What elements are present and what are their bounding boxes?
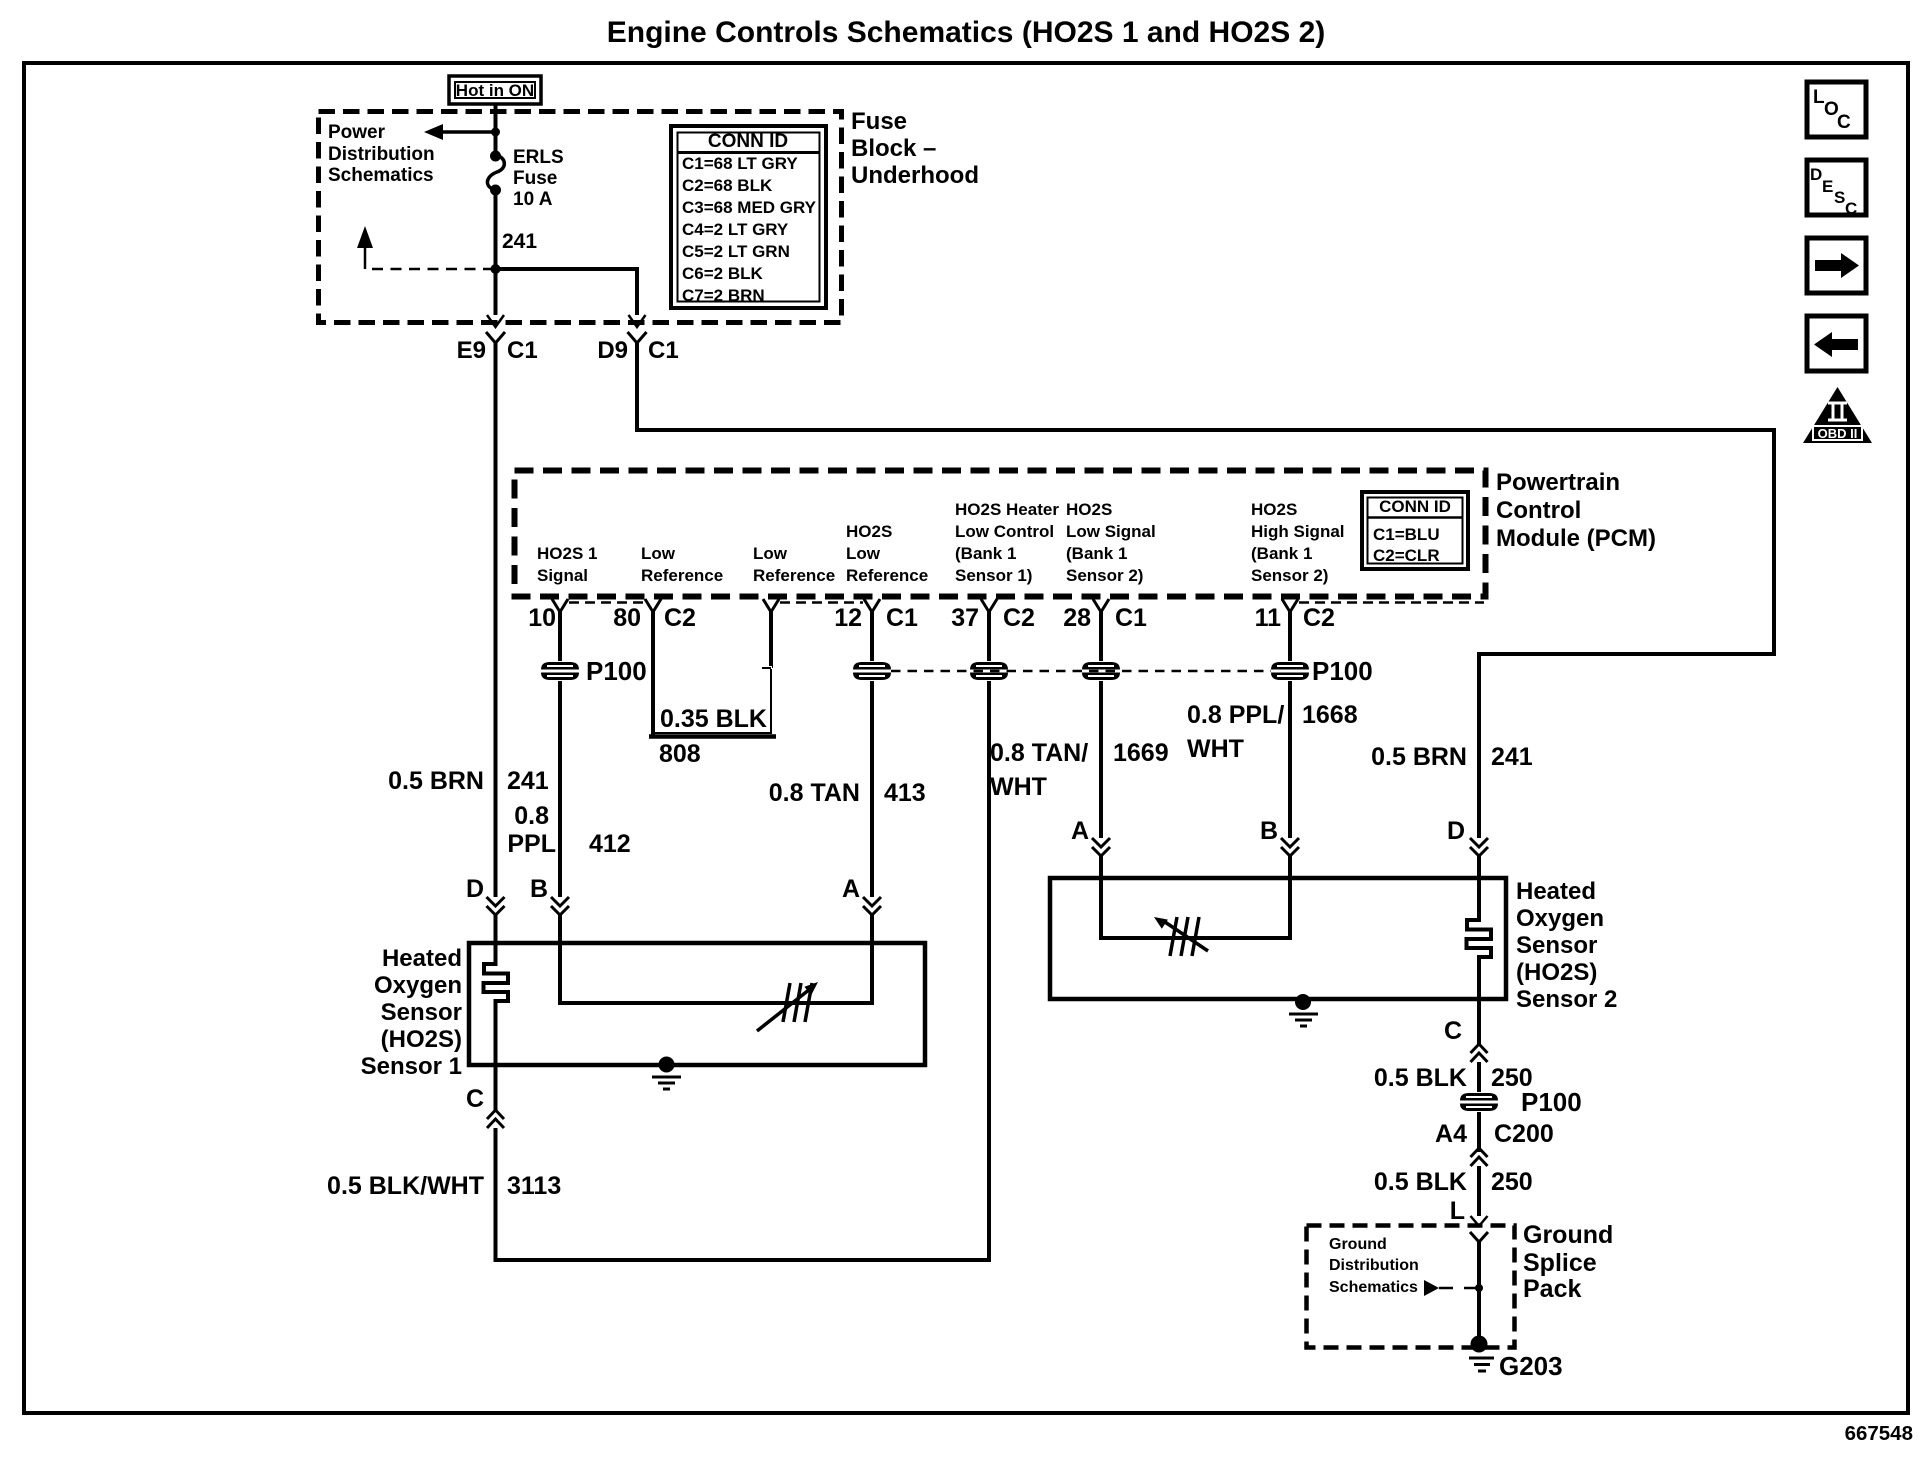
ground symbol G203 [1469, 1358, 1494, 1371]
svg-text:P100: P100 [1521, 1087, 1582, 1117]
svg-text:WHT: WHT [990, 773, 1047, 801]
highlight box for wire label 0.35 BLK [652, 666, 772, 733]
svg-text:(Bank 1: (Bank 1 [1066, 544, 1127, 563]
svg-text:C3=68 MED GRY: C3=68 MED GRY [682, 198, 817, 217]
next-page arrow button [1807, 238, 1866, 293]
arrowheads into HO2S2 pin A [1092, 838, 1110, 856]
svg-text:(Bank 1: (Bank 1 [1251, 544, 1312, 563]
wire below HO2S1 pin C [494, 1065, 498, 1110]
svg-text:0.35 BLK: 0.35 BLK [660, 705, 767, 733]
svg-text:(Bank 1: (Bank 1 [955, 544, 1016, 563]
svg-text:C2=68 BLK: C2=68 BLK [682, 176, 773, 195]
wire below HO2S2 pin C [1477, 999, 1481, 1044]
svg-text:Hot in ON: Hot in ON [456, 81, 534, 100]
arrowheads out of HO2S2 pin C [1471, 1044, 1488, 1062]
svg-text:Sensor 1: Sensor 1 [361, 1053, 462, 1080]
dashed reference pointer with up arrow [364, 248, 367, 269]
DESC button [1807, 160, 1866, 218]
ground dot G203 [1471, 1336, 1488, 1353]
svg-text:HO2S 1: HO2S 1 [537, 544, 597, 563]
svg-text:E9: E9 [457, 337, 486, 364]
connector tie dashes pin10-pin80 [569, 601, 644, 604]
svg-text:B: B [530, 875, 548, 903]
wire 241 into HO2S1 pin D [494, 343, 498, 943]
svg-text:C1: C1 [648, 337, 679, 364]
heater element inside HO2S2 [1467, 878, 1492, 999]
svg-text:0.8 TAN/: 0.8 TAN/ [990, 739, 1088, 767]
svg-text:C6=2 BLK: C6=2 BLK [682, 264, 763, 283]
arrowheads on wire 250 at C200 [1471, 1148, 1488, 1166]
splice P100 on wire 3113 [970, 662, 1008, 680]
connector tie dashes lowref-pin12 [780, 601, 863, 604]
svg-text:C2=CLR: C2=CLR [1373, 546, 1440, 565]
HO2S sensor 1 box [469, 943, 925, 1065]
svg-text:CONN ID: CONN ID [1379, 497, 1451, 516]
variable element arrow HO2S2 [1162, 920, 1208, 951]
PCM dashed box [515, 471, 1486, 597]
svg-text:10 A: 10 A [513, 189, 553, 210]
OBD II triangle icon [1803, 387, 1872, 443]
variable element arrow HO2S1 [757, 989, 810, 1031]
svg-text:Control: Control [1496, 497, 1581, 524]
svg-text:80: 80 [613, 604, 641, 632]
svg-text:0.8 PPL/: 0.8 PPL/ [1187, 701, 1284, 729]
svg-text:C1: C1 [1115, 604, 1147, 632]
svg-text:Ground: Ground [1329, 1236, 1387, 1253]
svg-text:0.5 BRN: 0.5 BRN [388, 767, 484, 795]
svg-text:Module (PCM): Module (PCM) [1496, 525, 1656, 552]
svg-text:WHT: WHT [1187, 735, 1244, 763]
svg-text:C5=2 LT GRN: C5=2 LT GRN [682, 242, 790, 261]
PCM connector Y pin 37 [981, 599, 997, 612]
wire from fuse down to junction node 241 [494, 194, 498, 269]
splice P100 on wire 412 [541, 662, 579, 680]
splice P100 on wire 413 [853, 662, 891, 680]
connector Y at E9 [486, 332, 505, 343]
svg-text:241: 241 [507, 767, 549, 795]
svg-text:28: 28 [1063, 604, 1091, 632]
PCM connector Y pin 12 [864, 599, 880, 612]
svg-text:Signal: Signal [537, 566, 588, 585]
connector tie dashes between P100 splices [891, 670, 1271, 673]
svg-text:Power: Power [328, 122, 386, 143]
PCM connector Y pin 28 [1093, 599, 1109, 612]
ground dot inside HO2S2 [1295, 994, 1311, 1010]
svg-text:Heated: Heated [1516, 878, 1596, 905]
svg-text:Sensor: Sensor [1516, 932, 1597, 959]
svg-text:ERLS: ERLS [513, 147, 564, 168]
arrowheads into HO2S1 pin D [487, 897, 505, 915]
svg-text:C7=2 BRN: C7=2 BRN [682, 286, 765, 305]
wire 808: PCM pin 80 down [651, 610, 655, 736]
svg-text:1669: 1669 [1113, 739, 1169, 767]
fuse ERLS 10A symbol [490, 151, 501, 162]
svg-text:241: 241 [502, 230, 537, 253]
svg-text:Schematics: Schematics [1329, 1279, 1418, 1296]
wire stubs into HO2S2 pins [1101, 856, 1479, 878]
internal sense wire HO2S1 [560, 943, 872, 1003]
splice P100 on wire 250 [1460, 1093, 1498, 1111]
PCM connector Y low reference [763, 599, 779, 612]
connector Y at ground splice pack [1470, 1232, 1488, 1242]
svg-text:Oxygen: Oxygen [1516, 905, 1604, 932]
splice P100 on wire 1668 [1271, 662, 1309, 680]
wire link under 0.35 BLK box [649, 734, 776, 739]
svg-text:808: 808 [659, 740, 701, 768]
wire from Hot in ON down to junction [494, 104, 498, 152]
svg-text:High Signal: High Signal [1251, 522, 1345, 541]
Ground Splice Pack dashed box [1307, 1226, 1515, 1348]
svg-text:Powertrain: Powertrain [1496, 469, 1620, 496]
svg-text:HO2S: HO2S [1251, 500, 1297, 519]
svg-text:Pack: Pack [1523, 1275, 1581, 1303]
svg-text:G203: G203 [1499, 1351, 1563, 1381]
svg-text:OBD II: OBD II [1818, 426, 1858, 441]
arrowhead pointing left [424, 124, 443, 140]
svg-text:0.5 BLK: 0.5 BLK [1374, 1064, 1467, 1092]
svg-text:D: D [1447, 817, 1465, 845]
LOC button [1807, 82, 1866, 137]
arrowhead into ground splice pack [1471, 1216, 1488, 1226]
svg-text:C2: C2 [664, 604, 696, 632]
svg-text:D: D [1810, 165, 1822, 184]
svg-text:Sensor 2): Sensor 2) [1251, 566, 1328, 585]
svg-text:413: 413 [884, 779, 926, 807]
wire: PCM low reference down [769, 610, 773, 668]
svg-text:Sensor: Sensor [381, 999, 462, 1026]
svg-text:0.8: 0.8 [514, 802, 549, 830]
svg-text:0.5 BLK/WHT: 0.5 BLK/WHT [327, 1172, 484, 1200]
svg-text:PPL: PPL [507, 830, 556, 858]
splice P100 on wire 1669 [1082, 662, 1120, 680]
svg-text:37: 37 [951, 604, 979, 632]
svg-text:Underhood: Underhood [851, 162, 979, 189]
svg-text:1668: 1668 [1302, 701, 1358, 729]
svg-text:Distribution: Distribution [1329, 1257, 1419, 1274]
wire 808 overlay on highlight box [651, 666, 655, 736]
svg-text:(HO2S): (HO2S) [1516, 959, 1597, 986]
wire from junction across and down to D9 exit [494, 269, 638, 315]
svg-text:Distribution: Distribution [328, 144, 435, 165]
svg-text:Low: Low [641, 544, 676, 563]
wire 241 from D9 across top to HO2S sensor 2 pin D [637, 343, 1774, 838]
variable sense element ticks HO2S1 [783, 983, 812, 1022]
svg-text:P100: P100 [586, 656, 647, 686]
variable sense element ticks HO2S2 [1170, 917, 1199, 956]
connector Y at D9 [628, 332, 647, 343]
Hot in ON flag box [449, 76, 541, 104]
svg-text:C1: C1 [507, 337, 538, 364]
wire 1668: PCM pin 11 to HO2S2 pin B [1288, 610, 1292, 838]
svg-text:HO2S Heater: HO2S Heater [955, 500, 1059, 519]
svg-text:Reference: Reference [846, 566, 928, 585]
svg-text:Block –: Block – [851, 135, 936, 162]
svg-text:C200: C200 [1494, 1120, 1554, 1148]
svg-text:412: 412 [589, 830, 631, 858]
CONN ID table (PCM) [1362, 492, 1468, 569]
svg-text:D9: D9 [597, 337, 628, 364]
wire 412: PCM pin 10 to HO2S1 pin B [558, 610, 562, 897]
PCM connector Y pin 11 [1282, 599, 1298, 612]
heater element inside HO2S1 [484, 943, 509, 1065]
CONN ID table (fuse block) [671, 126, 826, 308]
wire inside ground splice pack [1477, 1242, 1481, 1342]
svg-text:Reference: Reference [753, 566, 835, 585]
svg-text:B: B [1260, 817, 1278, 845]
svg-text:667548: 667548 [1845, 1422, 1913, 1445]
wire 413: PCM pin 12 to HO2S1 pin A [870, 610, 874, 897]
svg-text:Fuse: Fuse [851, 108, 907, 135]
svg-text:C1=BLU: C1=BLU [1373, 525, 1440, 544]
svg-text:A: A [1071, 817, 1089, 845]
svg-text:Low Signal: Low Signal [1066, 522, 1156, 541]
svg-text:11: 11 [1255, 604, 1282, 632]
svg-text:Reference: Reference [641, 566, 723, 585]
svg-text:HO2S: HO2S [1066, 500, 1112, 519]
svg-text:A: A [842, 875, 860, 903]
svg-text:0.5 BLK: 0.5 BLK [1374, 1168, 1467, 1196]
svg-text:Oxygen: Oxygen [374, 972, 462, 999]
arrowhead at D9 fuse box exit [629, 315, 646, 327]
arrowheads into HO2S1 pin A [863, 897, 881, 915]
Fuse Block - Underhood dashed box [319, 112, 842, 323]
svg-text:12: 12 [834, 604, 862, 632]
svg-text:A4: A4 [1435, 1120, 1467, 1148]
svg-text:Sensor 1): Sensor 1) [955, 566, 1032, 585]
previous-page arrow button [1807, 316, 1866, 371]
svg-text:3113: 3113 [507, 1172, 561, 1200]
connector tie dashes pin11-PCM edge [1299, 601, 1484, 604]
svg-text:250: 250 [1491, 1168, 1533, 1196]
svg-text:0.8 TAN: 0.8 TAN [769, 779, 860, 807]
svg-text:C2: C2 [1003, 604, 1035, 632]
svg-text:C: C [1845, 199, 1857, 218]
svg-text:L: L [1450, 1197, 1465, 1225]
svg-text:Sensor 2): Sensor 2) [1066, 566, 1143, 585]
svg-text:C1: C1 [886, 604, 918, 632]
arrowhead at E9 fuse box exit [487, 315, 504, 327]
wire 3113: PCM pin 37 down, across, up to HO2S1 pin C [496, 610, 990, 1260]
junction dot at fuse top stub [491, 128, 500, 137]
svg-text:0.5 BRN: 0.5 BRN [1371, 743, 1467, 771]
HO2S sensor 2 box [1050, 878, 1506, 999]
arrowheads out of HO2S1 pin C [487, 1110, 504, 1128]
svg-text:C: C [1837, 112, 1851, 133]
reference pointer arrow to wire [1424, 1280, 1439, 1296]
svg-text:D: D [466, 875, 484, 903]
PCM connector Y pin 80 [645, 599, 661, 612]
svg-text:P100: P100 [1312, 656, 1373, 686]
svg-text:Low Control: Low Control [955, 522, 1054, 541]
svg-text:10: 10 [528, 604, 556, 632]
svg-text:C2: C2 [1303, 604, 1335, 632]
ground symbol HO2S1 [652, 1077, 681, 1089]
ground symbol HO2S2 [1289, 1014, 1318, 1026]
svg-text:HO2S: HO2S [846, 522, 892, 541]
svg-text:C: C [1444, 1017, 1462, 1045]
arrowheads into HO2S2 pin D [1470, 838, 1488, 856]
svg-text:S: S [1834, 188, 1845, 207]
wire stubs into box pins B and A [560, 915, 872, 943]
svg-text:Ground: Ground [1523, 1221, 1613, 1249]
wire stub to power distribution arrow [441, 130, 497, 134]
PCM connector Y pin 10 [552, 599, 568, 612]
svg-text:Low: Low [846, 544, 881, 563]
svg-text:C: C [466, 1085, 484, 1113]
wire from junction to E9 exit [494, 267, 498, 315]
svg-text:Splice: Splice [1523, 1249, 1597, 1277]
svg-text:E: E [1822, 177, 1833, 196]
svg-text:Fuse: Fuse [513, 168, 557, 189]
svg-text:C1=68 LT GRY: C1=68 LT GRY [682, 154, 798, 173]
svg-text:C4=2 LT GRY: C4=2 LT GRY [682, 220, 789, 239]
svg-text:(HO2S): (HO2S) [381, 1026, 462, 1053]
ground dot inside HO2S1 [659, 1057, 675, 1073]
wire from C arrow to P100 [1477, 1062, 1481, 1152]
svg-text:Heated: Heated [382, 945, 462, 972]
internal sense wire HO2S2 [1101, 878, 1290, 938]
wire 1669: PCM pin 28 to HO2S2 pin A [1099, 610, 1103, 838]
arrowheads into HO2S2 pin B [1281, 838, 1299, 856]
svg-text:241: 241 [1491, 743, 1533, 771]
svg-text:Engine Controls Schematics (HO: Engine Controls Schematics (HO2S 1 and H… [607, 16, 1326, 49]
svg-text:Low: Low [753, 544, 788, 563]
arrowheads into HO2S1 pin B [551, 897, 569, 915]
junction dot node 241 [491, 264, 501, 274]
wire into ground splice pack pin L [1477, 1166, 1481, 1216]
svg-text:Schematics: Schematics [328, 165, 434, 186]
svg-text:Sensor 2: Sensor 2 [1516, 986, 1617, 1013]
svg-text:CONN ID: CONN ID [708, 131, 788, 152]
